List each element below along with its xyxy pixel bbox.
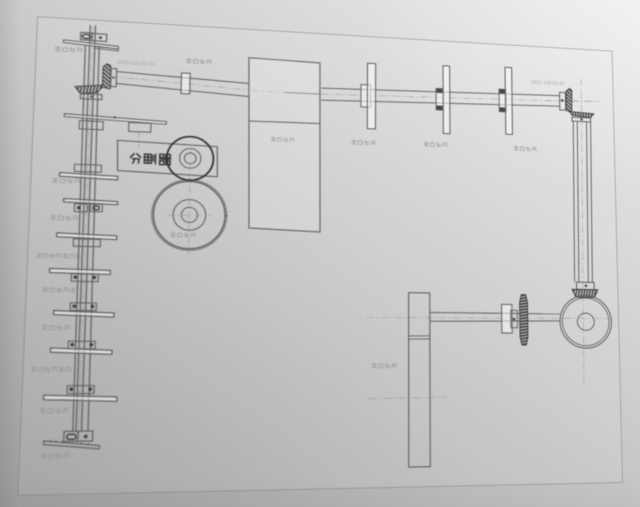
cam hub 4 (73, 239, 100, 247)
label: cam 7 (31, 367, 36, 371)
shaft coupling (181, 73, 190, 94)
left camshaft centerline (79, 26, 93, 433)
vertical link to divider (138, 132, 141, 148)
cam bar 8 (43, 395, 116, 402)
wheel bevel gear (572, 289, 598, 297)
support column (409, 293, 431, 467)
left horizontal bevel gear (on camshaft) (75, 84, 105, 95)
top bearing: mounting plate (63, 40, 118, 49)
divider text 分割器 (130, 153, 172, 165)
right area vertical centerline (578, 79, 588, 388)
left bevel hub arrow dot (90, 96, 93, 99)
cam hub 5 (71, 274, 98, 282)
cam 3 right hub box (90, 204, 102, 212)
base bar ticks (50, 439, 88, 445)
wheel outer circle (560, 295, 612, 348)
right horizontal bevel gear (569, 111, 594, 117)
motor box (246, 58, 322, 232)
label: cam 2 (52, 178, 58, 183)
cam 3 left hub box (74, 204, 87, 212)
cam hub 8 (67, 386, 94, 394)
cam hub 7 (68, 341, 95, 349)
column centerline horizontal (368, 397, 446, 398)
label: bottom cam (41, 453, 47, 458)
cam bar 2 (59, 173, 117, 180)
bottom bevel gear (edge view) (519, 295, 528, 345)
top bearing: right block (92, 33, 107, 41)
right bevel: vertical hub on line shaft (559, 92, 565, 110)
label: cam 3 (50, 215, 56, 220)
hanger block under plate right (129, 122, 151, 132)
right vertical shaft (571, 121, 594, 282)
left camshaft shaft lines (76, 25, 95, 431)
label: worm (171, 232, 176, 236)
cam hub 6 (70, 303, 96, 311)
line shaft left segment (116, 72, 249, 97)
link line to worm gear (188, 148, 191, 254)
left vertical bevel gear (on line shaft) (102, 63, 111, 88)
label: cam 6 (42, 325, 48, 330)
divider output circle (166, 136, 214, 181)
label: cam A (352, 140, 357, 144)
label: cam 4 (37, 253, 42, 257)
top bearing: ellipse housing box (81, 32, 93, 40)
divider box (117, 140, 218, 176)
cam B hub set screws (436, 89, 442, 94)
cam disk B (edge view) (436, 88, 443, 110)
label: signal detect (186, 58, 191, 62)
cam C hub set screws (499, 89, 505, 93)
label: cam 5 (43, 287, 48, 291)
label: cam B (424, 142, 428, 146)
right bevel hub (572, 117, 591, 122)
cam hub 2 (74, 164, 101, 172)
shaft hint inside box (285, 92, 320, 94)
arrow dot on line shaft (112, 76, 115, 79)
hub under plate (79, 121, 103, 130)
wheel hub block (577, 282, 595, 290)
label: cam 8 (40, 408, 46, 413)
cam bar 5 (50, 268, 111, 274)
bottom bearing: right block (78, 431, 93, 441)
label: cam C (514, 146, 518, 150)
top bearing: plate lip right (95, 46, 118, 51)
right area horizontal centerline (545, 99, 599, 104)
cam disk A (edge view) (361, 85, 371, 108)
column seam (409, 335, 430, 337)
label: top-left cam (55, 46, 60, 51)
bottom shaft centerline (366, 316, 619, 320)
line shaft right segment (321, 84, 560, 112)
wheel hub circle (577, 313, 594, 330)
top bearing: set screw dot (99, 36, 102, 39)
cam bar 4 (57, 233, 117, 240)
cam bar 7 (50, 348, 112, 354)
bottom shaft (430, 312, 560, 322)
cam disk C (edge view) (499, 89, 506, 112)
cam bar 3 (small) (64, 199, 118, 205)
left camshaft outer bracket lines (72, 45, 102, 431)
label: motor (271, 137, 275, 141)
cam bar 6 (53, 311, 114, 318)
bottom base bar (43, 440, 99, 449)
plate above divider (64, 114, 166, 125)
worm wheel (toothed) (151, 179, 227, 250)
bottom bearing: ellipse housing (64, 431, 78, 441)
label: sensor unit (372, 363, 377, 367)
top bearing: ellipse (82, 34, 90, 39)
line shaft centerline (110, 76, 249, 90)
worm wheel crosshair (167, 214, 211, 216)
right vertical bevel gear (566, 88, 572, 112)
bottom bearing block (502, 304, 513, 333)
left vertical bevel gear hub (111, 68, 117, 86)
motor box seam (249, 120, 320, 124)
left bevel gear hub (80, 94, 102, 100)
